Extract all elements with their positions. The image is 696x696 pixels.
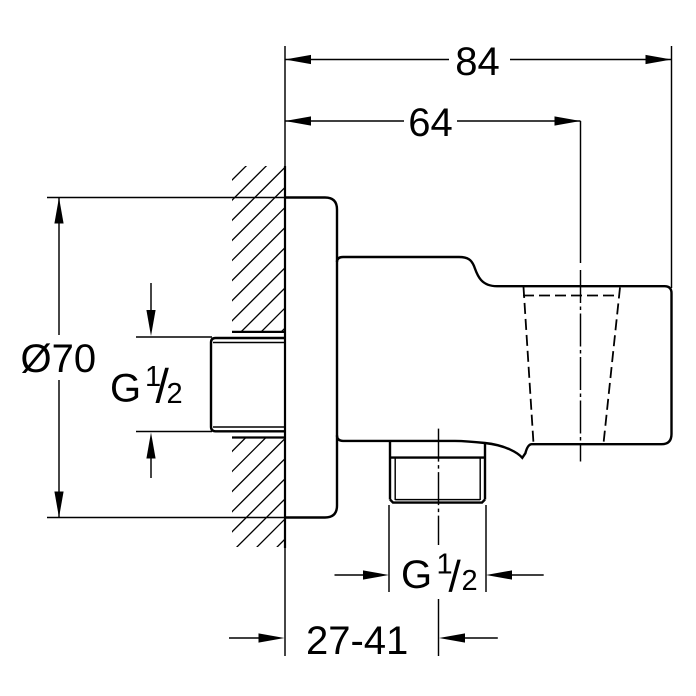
inlet nipple outline (211, 338, 286, 431)
wall hole bottom edge (232, 436, 286, 438)
wall hole top edge (232, 331, 286, 333)
arrowhead 84 left (285, 55, 311, 64)
outlet nipple right edge (484, 443, 486, 500)
dimension diameter-70 line (58, 198, 60, 518)
outlet thread root bottom (395, 499, 480, 501)
wall face line (284, 166, 286, 548)
dimension 27-41 left arrow (229, 637, 260, 639)
outlet nipple shoulder (390, 456, 485, 458)
holder cup hidden top (523, 295, 620, 297)
label diameter 70 (22, 343, 95, 373)
G1/2 bottom left arrow (335, 574, 366, 576)
holder cup hidden left edge (524, 287, 534, 444)
extension line wall face lower (to dim 27-41) (284, 548, 286, 656)
extension line body right edge (to dim 84) (671, 46, 673, 288)
flange outline (286, 198, 338, 518)
label 84 (457, 47, 499, 75)
label 64 (410, 108, 451, 136)
extension line outlet thread left (G1/2 bottom) (388, 505, 390, 592)
extension line inlet thread bottom (G1/2 left) (136, 431, 212, 433)
arrowhead dia70 bottom (54, 492, 63, 518)
dimension 27-41 right arrow (463, 637, 498, 639)
outlet nipple left edge (389, 441, 391, 500)
extension line inlet thread top (G1/2 left) (136, 336, 212, 338)
inlet thread root bottom (213, 426, 285, 428)
outlet end face with chamfer (390, 500, 485, 503)
outlet thread root right (479, 458, 481, 500)
G1/2 bottom right arrow (510, 574, 544, 576)
label G1/2 bottom (403, 560, 429, 588)
inlet thread root top (213, 342, 285, 344)
dimension 64 line (285, 120, 581, 122)
label G1/2 left (112, 374, 138, 402)
arrowhead 84 right (646, 55, 672, 64)
outlet axis center line (438, 429, 440, 545)
arrowhead 64 left (285, 116, 311, 125)
arrowhead 64 right (555, 116, 581, 125)
extension line flange top (dim diameter 70) (47, 197, 286, 199)
G1/2 left top arrow (150, 283, 152, 312)
extension line flange bottom (dim diameter 70) (47, 517, 286, 519)
body outline (337, 257, 672, 458)
arrowhead dia70 top (54, 198, 63, 224)
label 27-41 (308, 626, 406, 654)
extension line wall face upper (to dims 84/64) (284, 46, 286, 166)
extension line outlet thread right (G1/2 bottom) (485, 505, 487, 592)
outlet thread root left (394, 458, 396, 500)
dimension 84 line (285, 59, 672, 61)
extension line holder axis (to dim 64) (580, 121, 582, 263)
holder cup hidden right edge (604, 288, 621, 444)
G1/2 left bottom arrow (150, 457, 152, 478)
holder axis center line (580, 270, 582, 462)
